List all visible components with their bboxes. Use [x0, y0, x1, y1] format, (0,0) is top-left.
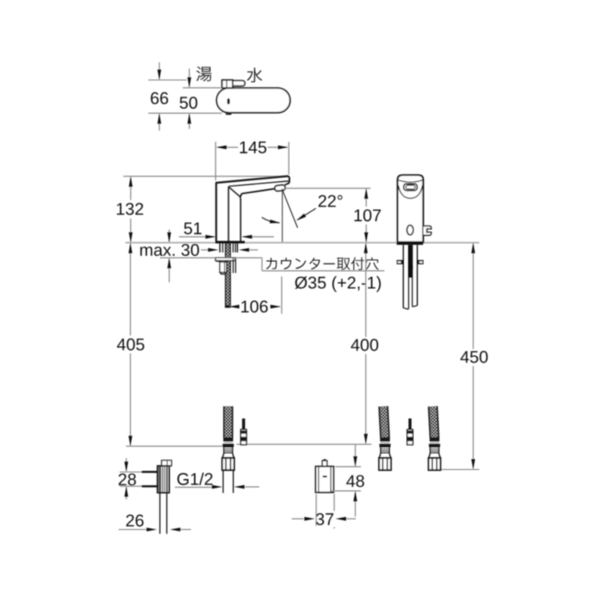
dimension 51 value label — [184, 223, 201, 235]
dimension 50 extension line top — [183, 87, 222, 89]
mounting nut — [220, 262, 227, 272]
faucet top edge — [216, 176, 289, 183]
22 degree label — [319, 195, 343, 207]
dimension 66 value label — [151, 92, 168, 104]
right braided hose 2: G1/2 nut — [429, 458, 441, 470]
box part slot mark — [323, 476, 327, 478]
dimension 450 bottom extension line — [429, 469, 480, 471]
counter top line — [125, 242, 479, 244]
dimension 132 extension line top — [123, 175, 288, 177]
front view right hose — [411, 245, 413, 307]
threaded rod with thread hatch — [226, 243, 231, 305]
callout leader step — [261, 258, 263, 271]
front view aerator — [404, 184, 418, 191]
right braided hose 2: taper to nut — [429, 453, 441, 458]
supply hose with G1/2 nut: crimp collar — [223, 438, 233, 442]
lever lower tab below capsule — [226, 113, 232, 115]
dimension 66 extension line bottom — [148, 112, 222, 114]
dimension 450 value label — [460, 351, 487, 363]
mounting washer — [216, 258, 236, 261]
dimension 132 value label — [117, 203, 143, 215]
dimension 450 dim line with arrows — [472, 244, 474, 349]
shank left tube — [219, 243, 221, 252]
hose outlet stub — [232, 258, 234, 273]
max 30 value label — [140, 244, 199, 256]
dimension 405 value label — [117, 338, 144, 350]
dimension 106 value label — [241, 301, 267, 313]
dimension 106 dim line with arrows — [230, 306, 238, 308]
dimension 48 value label — [346, 475, 364, 487]
elbow outlet pipe — [159, 493, 161, 534]
dimension 28 extension lines — [120, 471, 142, 473]
dimension 400 bottom extension line — [237, 443, 372, 445]
small pin fitting left: body — [241, 430, 247, 445]
front view body outline — [398, 175, 424, 242]
front view base band — [397, 242, 424, 245]
box part body — [316, 466, 334, 492]
dimension 28 arrows — [125, 458, 127, 471]
dimension 50 arrows — [188, 69, 190, 87]
faucet underside line — [241, 184, 288, 197]
right braided hose 2: crimp collar — [430, 438, 440, 442]
dimension 107 value label — [355, 209, 381, 221]
dimension 66 arrows — [158, 62, 160, 79]
elbow union top cap — [162, 460, 172, 465]
faucet base plate — [215, 241, 245, 244]
front view center threaded rod — [409, 245, 412, 278]
dimension 66 extension line top — [148, 79, 187, 81]
shank right tube — [232, 243, 234, 252]
faucet front-right edge — [240, 199, 242, 242]
front view top rim arc — [398, 180, 423, 182]
G1/2 thread label — [177, 473, 212, 485]
spout vertical centerline — [281, 189, 283, 243]
small pin fitting right: pin tip — [409, 419, 412, 430]
dimension 405 dim line with arrows — [129, 244, 131, 336]
elbow inlet stub upper — [142, 471, 158, 473]
faucet inner top line — [229, 181, 289, 186]
cold water label 水 — [247, 68, 262, 83]
dimension 106 right extension line — [281, 277, 283, 314]
dimension 145 value label — [240, 142, 266, 154]
front view spout curve — [398, 185, 422, 198]
dimension 48 arrows — [354, 444, 356, 465]
dimension 50 value label — [180, 97, 198, 109]
dimension 37 dim line with arrows — [292, 518, 304, 520]
supply hose with G1/2 nut: G1/2 nut — [222, 458, 234, 470]
small pin fitting left: pin tip — [242, 419, 245, 430]
supply hose with G1/2 nut: threaded neck — [224, 447, 233, 453]
dimension 107 dim line with arrows — [365, 189, 367, 206]
dimension 107 extension line top — [285, 187, 371, 189]
dimension 400 value label — [351, 339, 378, 351]
side clip bracket — [423, 226, 431, 235]
mounting bracket left tab — [397, 260, 404, 264]
22 degree leader arrow — [298, 208, 316, 219]
dimension 37 value label — [316, 513, 333, 525]
hole diameter label — [295, 276, 381, 292]
dimension 400 dim line with arrows — [365, 244, 367, 337]
lever handle base block — [222, 80, 233, 88]
cartridge slot mark inside capsule — [227, 98, 230, 104]
dimension 405 bottom extension line — [126, 445, 223, 447]
elbow inlet stub lower — [142, 485, 158, 487]
right braided hose 1: taper to nut — [379, 453, 391, 458]
dimension 132 dim line with arrows — [130, 177, 132, 200]
max 30 bottom extension line — [160, 257, 262, 259]
dimension 26 value label — [126, 515, 143, 527]
sensor window — [407, 225, 413, 235]
supply hose with G1/2 nut: taper to nut — [222, 453, 234, 458]
top view capsule body — [217, 88, 291, 113]
G1/2 leader line with arrow — [175, 486, 212, 488]
faucet back edge — [215, 183, 217, 241]
small pin fitting right: body — [407, 430, 413, 445]
right braided hose 1: braided hose — [379, 406, 389, 438]
dimension 28 value label — [119, 473, 136, 485]
faucet front corner diagonal — [229, 187, 241, 199]
max 30 pointer arrows to shank — [201, 249, 208, 251]
right braided hose 2: threaded neck — [430, 447, 439, 453]
right braided hose 1: threaded neck — [381, 447, 390, 453]
dimension 48 extension lines — [335, 466, 361, 468]
faucet front-left edge — [228, 187, 230, 241]
supply hose outlet pipe — [222, 470, 224, 493]
supply hose with G1/2 nut: braided hose — [224, 406, 233, 437]
mounting bracket right tab — [417, 260, 424, 264]
threaded rod bottom cap — [225, 305, 231, 307]
angle arc with arrow — [262, 217, 280, 223]
right braided hose 1: crimp collar — [380, 438, 390, 442]
dimension 145 extension line left — [215, 142, 217, 181]
right braided hose 2: braided hose — [429, 406, 439, 438]
22 degree slant line — [282, 190, 297, 228]
dimension 37 extension lines — [315, 494, 317, 526]
aerator on spout — [275, 185, 286, 191]
right braided hose 1: G1/2 nut — [379, 458, 391, 470]
dimension 26 dim line with arrows — [119, 529, 147, 531]
dimension 145 dim line with arrows — [217, 146, 238, 148]
box part nipple — [322, 461, 327, 467]
faucet spout nose — [288, 176, 290, 183]
dimension 145 extension line right — [288, 142, 290, 175]
max 30 vertical arrows — [168, 230, 170, 242]
counter mounting hole label — [266, 258, 277, 270]
lever handle arm — [231, 81, 245, 86]
hot water label 湯 — [196, 66, 211, 81]
dimension 51 dim line with arrows — [179, 236, 215, 238]
elbow union body — [157, 466, 169, 493]
front view left hose — [402, 245, 404, 308]
